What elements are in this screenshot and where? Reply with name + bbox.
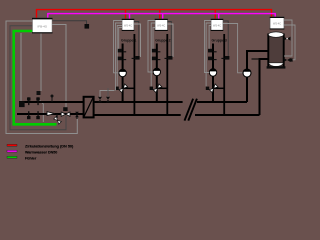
end pump block on upper pipe: [19, 101, 25, 107]
valve V3 on lower pipe: [27, 111, 31, 119]
wire g1 actuator: [117, 26, 122, 87]
heat exchanger HX1: [84, 97, 94, 118]
controller U3: [155, 19, 168, 31]
wire g2 pump: [148, 21, 155, 73]
pipe group1 return riser: [133, 34, 135, 115]
wire g2 actuator: [151, 23, 155, 86]
wire g2 right outer: [168, 24, 174, 57]
wire dark from U1 right to sensor box: [52, 21, 87, 25]
tank valve upper right: [284, 37, 291, 41]
pump P3: [209, 69, 216, 76]
wire gray from U1 right down to lower pipe valve actuator: [52, 25, 66, 108]
valve g1c on return: [132, 56, 140, 60]
wire g1 supply valve: [119, 28, 122, 49]
return pipe from tank to lower header: [260, 59, 269, 115]
legend red swatch: [7, 144, 17, 146]
svg-text:WS-4C: WS-4C: [124, 24, 132, 27]
storage tank T1: [267, 32, 286, 69]
bypass pipe g2: [157, 87, 168, 89]
wire U5 right lower: [284, 25, 295, 60]
3-way valve M2: [150, 84, 162, 93]
wire green control line from U1 to 3-way valve: [14, 31, 57, 124]
legend magenta swatch: [7, 150, 17, 152]
valve V4 on lower pipe: [36, 111, 40, 119]
3-way valve M3: [206, 84, 218, 93]
wire g1 valve100: [116, 23, 123, 91]
wire g3 right to pump P4: [223, 24, 242, 73]
pump P4: [243, 69, 251, 77]
upper pipe left manifold: [19, 101, 83, 103]
wire g1 right outer: [134, 24, 140, 57]
bypass pipe g3: [213, 87, 224, 89]
3-way valve M1: [115, 84, 127, 93]
wire gray loop A from controller U1 around left to motor valve: [6, 21, 77, 134]
3-way zone valve below pipe with green link: [54, 114, 62, 124]
pipe group1 supply riser: [122, 44, 124, 103]
svg-text:IFB-4G: IFB-4G: [37, 24, 47, 28]
charge pipe from header to tank: [247, 51, 268, 102]
valve V2 on upper pipe: [36, 97, 40, 105]
wire U5 right upper: [284, 20, 292, 56]
wire g3 return valve: [223, 21, 228, 56]
pipe group3 supply riser: [212, 44, 214, 103]
valve g1b on supply: [118, 57, 127, 61]
wire g3 actuator: [206, 23, 211, 86]
pump P2: [153, 68, 160, 75]
valve g1a on supply: [118, 49, 127, 53]
pipe group2 supply riser: [156, 44, 158, 103]
wire gray C from U1 bottom to upper pipe start: [20, 33, 22, 101]
wire gray cross link near valves: [39, 100, 44, 122]
header valve H2 near HX: [106, 97, 110, 103]
svg-text:Gruppe 2: Gruppe 2: [155, 38, 170, 42]
legend green swatch: [7, 156, 17, 158]
pipe group3 return riser: [223, 34, 225, 115]
sensor box S1: [85, 24, 90, 29]
wire g2 supply valve: [153, 28, 155, 49]
valve g2a on supply: [152, 49, 161, 53]
stub at return pipe top: [252, 58, 260, 60]
valve g3c on return: [221, 56, 229, 60]
wire g3 supply valve: [209, 26, 211, 49]
upper header supply: [94, 101, 247, 103]
valve g2b on supply: [152, 57, 161, 61]
wire g2 return valve: [168, 22, 172, 57]
wire g1 return valve: [134, 22, 139, 57]
controller U1: [32, 18, 53, 34]
svg-text:WS-4C: WS-4C: [157, 24, 165, 27]
valve g3b on supply: [208, 57, 217, 61]
check valve on lower pipe: [47, 112, 55, 116]
valve V1 on upper pipe: [27, 97, 31, 105]
controller U5: [270, 17, 285, 30]
wire to valve actuator on upper pipe: [40, 33, 42, 91]
valve g3a on supply: [208, 49, 217, 53]
tank valve lower right: [284, 58, 293, 62]
lower pipe left manifold: [17, 113, 83, 115]
pipe group2 return riser: [166, 34, 168, 115]
controller U2: [122, 19, 135, 31]
wire g3 pump: [205, 21, 212, 73]
svg-text:Fühler: Fühler: [25, 157, 37, 161]
sensor stub on upper pipe: [51, 97, 53, 103]
svg-text:WS-4C: WS-4C: [273, 23, 281, 26]
valve g2c on return: [165, 56, 173, 60]
pump P1: [119, 69, 126, 76]
wire magenta bus: [48, 14, 275, 19]
gate valve with actuator on lower pipe: [61, 107, 70, 116]
svg-text:Zirkulationsleitung (DN 50): Zirkulationsleitung (DN 50): [25, 145, 74, 149]
wire dark loop B from controller U1 around left to lower pipe valve: [10, 26, 66, 130]
lower header return: [94, 114, 260, 116]
wire red bus: [37, 10, 272, 19]
svg-text:WS-4C: WS-4C: [213, 24, 221, 27]
pipe break symbol: [185, 99, 197, 121]
motor valve on lower pipe: [75, 112, 79, 119]
wire g1 pump: [114, 21, 123, 73]
controller U4: [211, 19, 224, 31]
bypass pipe g1: [123, 87, 135, 89]
header valve H1 near HX: [98, 97, 102, 103]
actuator box on upper pipe valve: [37, 91, 41, 95]
svg-text:Warmwasser DN50: Warmwasser DN50: [25, 151, 57, 155]
